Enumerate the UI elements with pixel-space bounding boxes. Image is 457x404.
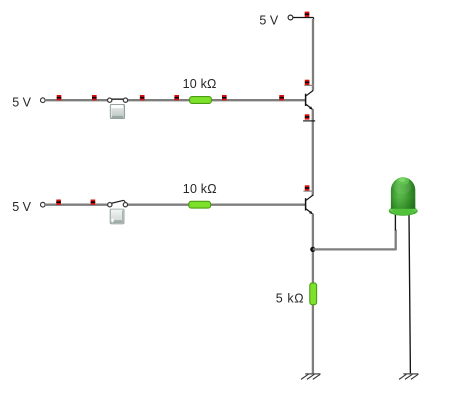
wire row 1 left segment — [45, 99, 108, 101]
switch SW2 pole circle — [108, 203, 112, 207]
current marker row 1 c — [140, 95, 145, 100]
resistor R2 10k — [189, 201, 211, 208]
LED D1 flange top surface — [389, 206, 417, 214]
LED D1 dome top cap highlight — [397, 177, 409, 185]
current marker row 1 e — [222, 95, 227, 100]
LED D1 cathode lead to ground — [409, 215, 410, 374]
wire row 2 right segment — [128, 204, 306, 206]
wire vertical Q2 emitter to junction and down to ground — [312, 214, 314, 374]
switch SW2 blade tip tick — [124, 200, 125, 202]
transistor Q1 emitter pin line — [303, 120, 315, 122]
wire up to LED anode — [395, 230, 397, 251]
resistor R3 5k (vertical) — [310, 283, 317, 305]
wire main vertical (corner to Q1 collector) — [312, 19, 314, 91]
pin marker Q1 emitter — [305, 114, 310, 119]
transistor Q2 — [306, 195, 314, 214]
LED D1 flange inner — [391, 208, 415, 215]
switch SW1 throw circle — [123, 98, 127, 102]
transistor Q2 collector pin stub — [303, 190, 314, 192]
terminal row 1 (open circle) — [41, 98, 46, 103]
svg-text:10 kΩ: 10 kΩ — [183, 77, 217, 91]
junction node (emitter to LED / R3) — [310, 247, 315, 252]
current marker row 2 a — [56, 200, 61, 205]
wire top corner down stub — [313, 18, 315, 21]
pin marker Q2 collector — [305, 185, 310, 190]
terminal row 2 (open circle) — [41, 202, 46, 207]
wire row 1 right segment — [128, 99, 306, 101]
LED D1 dome lower shading — [391, 197, 415, 209]
switch SW1 blade (closed) — [111, 98, 124, 100]
push button SW1 — [110, 104, 125, 119]
switch SW1 pole circle — [108, 98, 112, 102]
resistor R1 10k — [190, 97, 212, 104]
switch SW2 throw circle — [123, 203, 127, 207]
LED D1 dome body — [391, 177, 415, 208]
current marker row 1 f — [279, 95, 284, 100]
LED D1 anode lead — [394, 215, 396, 231]
terminal VCC top (open circle) — [288, 15, 293, 20]
LED D1 flange base — [389, 206, 418, 216]
LED D1 dome top cap core — [399, 178, 406, 182]
wire top horizontal (terminal to corner) — [293, 17, 313, 19]
svg-text:10 kΩ: 10 kΩ — [183, 182, 217, 196]
transistor Q1 collector pin stub — [304, 84, 314, 86]
wire row 2 left segment — [45, 204, 108, 206]
current marker row 1 a — [57, 95, 62, 100]
transistor Q1 — [306, 91, 314, 110]
current marker on top wire — [305, 12, 310, 17]
push button SW2 — [110, 209, 125, 224]
svg-text:5 V: 5 V — [259, 13, 278, 27]
pin marker Q1 collector — [305, 80, 310, 85]
LED D1 dome soft sheen — [394, 180, 411, 195]
wire junction to LED (horizontal) — [313, 248, 396, 250]
current marker row 1 b — [92, 95, 97, 100]
ground symbol left — [301, 374, 320, 380]
current marker row 2 b — [91, 200, 96, 205]
ground symbol right — [399, 374, 418, 380]
svg-text:5 V: 5 V — [12, 200, 31, 214]
switch SW2 blade (open) — [111, 200, 124, 203]
svg-text:5 V: 5 V — [12, 96, 31, 110]
svg-text:5 kΩ: 5 kΩ — [276, 291, 304, 305]
current marker row 1 d — [174, 95, 179, 100]
wire vertical Q1 emitter to Q2 collector — [312, 109, 314, 195]
